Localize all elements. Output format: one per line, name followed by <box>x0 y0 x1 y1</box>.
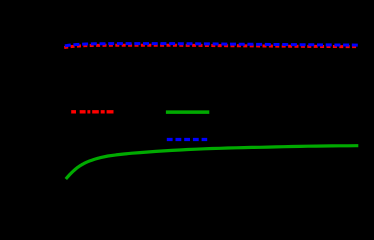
blue dashed curve (upper, drawn over red) <box>65 44 359 46</box>
green solid curve (lower) <box>66 146 359 179</box>
legend key: blue dashed sample <box>167 138 207 141</box>
legend key: green solid sample <box>166 110 209 114</box>
legend key: red dotted sample <box>71 110 113 113</box>
red dotted curve (upper, drawn under blue) <box>64 45 358 47</box>
